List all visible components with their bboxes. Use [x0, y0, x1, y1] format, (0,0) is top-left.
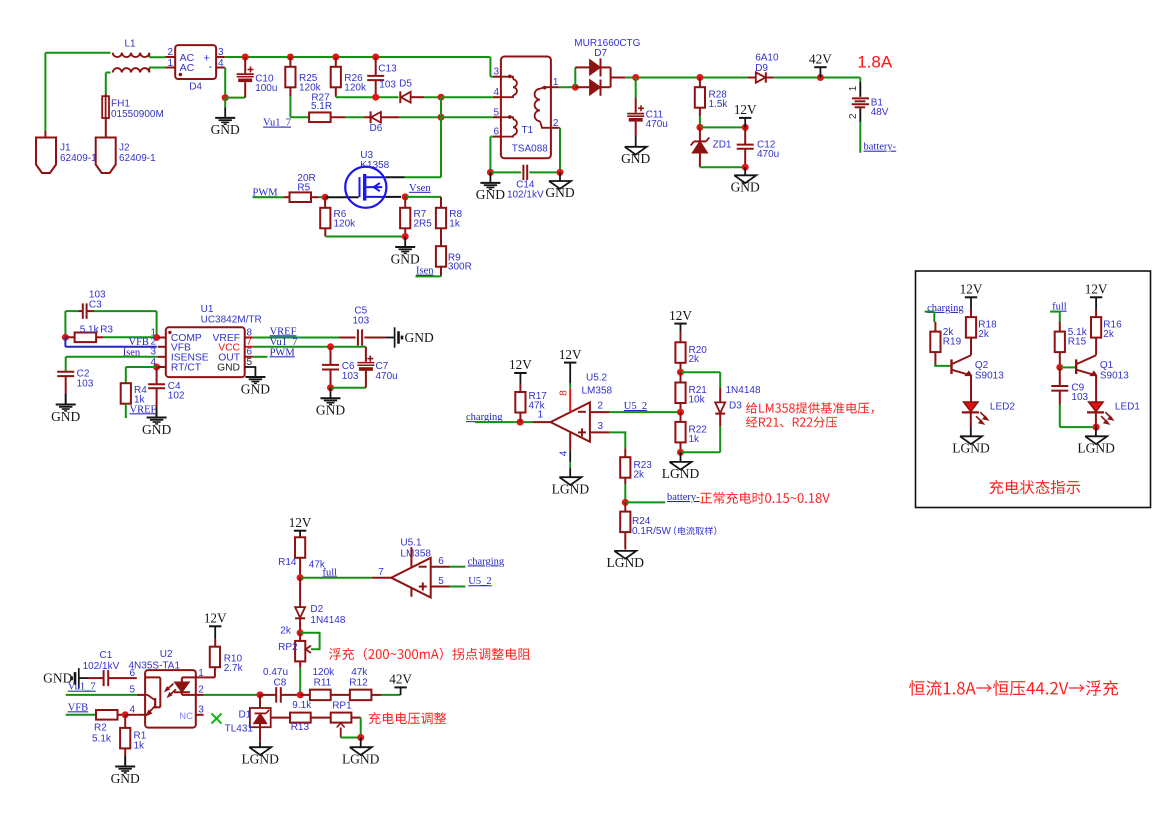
svg-text:VFB: VFB	[68, 702, 88, 713]
svg-text:LGND: LGND	[607, 555, 645, 570]
svg-text:U5.2: U5.2	[586, 373, 608, 384]
svg-text:Vu1_7: Vu1_7	[263, 118, 291, 129]
wire L1 lower to D4 pin1	[149, 67, 165, 69]
svg-text:TL431: TL431	[225, 723, 254, 734]
ground GND under T1 pin6	[489, 172, 491, 183]
svg-text:UC3842M/TR: UC3842M/TR	[201, 315, 262, 326]
wire ISENSE	[66, 356, 158, 358]
wire T1 pin4	[441, 96, 493, 98]
svg-text:5.1k: 5.1k	[92, 734, 112, 745]
svg-text:9.1k: 9.1k	[292, 700, 312, 711]
wire D1 ref to R13	[271, 717, 290, 719]
svg-text:C13: C13	[378, 64, 397, 75]
junction	[1093, 424, 1100, 431]
junction	[438, 114, 445, 121]
junction	[327, 343, 334, 350]
svg-text:103: 103	[342, 371, 359, 382]
resistor R16	[1095, 309, 1097, 317]
svg-text:5: 5	[438, 576, 444, 587]
svg-text:T1: T1	[522, 125, 534, 136]
wire R6 to R7 ground rail	[325, 236, 405, 238]
junction Vsen	[402, 193, 409, 200]
ground GND under C4	[156, 408, 158, 418]
svg-text:6: 6	[129, 668, 135, 679]
resistor R3	[65, 336, 74, 338]
wire to D3 top	[681, 371, 721, 373]
svg-text:2: 2	[167, 47, 173, 58]
optocoupler U2	[137, 694, 145, 696]
svg-text:3: 3	[493, 67, 499, 78]
junction	[677, 409, 684, 416]
wire output rail	[625, 77, 748, 79]
svg-text:62409-1: 62409-1	[60, 153, 97, 164]
wire full to op-amp	[300, 577, 372, 579]
svg-text:U2: U2	[160, 649, 173, 660]
wire rail to T1 pin3	[489, 57, 491, 77]
resistor R13	[290, 713, 311, 723]
resistor R5	[290, 192, 312, 202]
svg-text:R2: R2	[94, 723, 107, 734]
wire R28 to C12	[700, 126, 745, 128]
wire drain	[386, 176, 405, 178]
svg-text:LGND: LGND	[952, 441, 990, 456]
wire T1 pin2 down	[559, 127, 560, 129]
svg-text:RT/CT: RT/CT	[171, 363, 202, 374]
power flag 12V above R18	[965, 296, 977, 298]
svg-text:2: 2	[598, 401, 604, 412]
annotation red text normal charging	[700, 492, 830, 504]
svg-text:D5: D5	[399, 79, 412, 90]
svg-text:120k: 120k	[334, 219, 357, 230]
wire gate	[325, 196, 358, 198]
svg-text:U5_2: U5_2	[468, 576, 491, 587]
svg-text:2k: 2k	[978, 329, 990, 340]
svg-text:1: 1	[167, 58, 173, 69]
svg-text:L1: L1	[124, 39, 136, 50]
wire L1 to D4 pin2	[149, 56, 165, 58]
annotation red text bottom right	[909, 680, 1118, 696]
svg-text:GND: GND	[51, 409, 80, 424]
resistor R1	[124, 715, 126, 728]
svg-text:GND: GND	[391, 251, 420, 266]
ground GND pin5	[245, 367, 256, 377]
ground GND right of C5	[385, 337, 394, 339]
svg-text:5.1k: 5.1k	[80, 324, 100, 335]
svg-text:12V: 12V	[289, 515, 312, 530]
power flag 42V	[400, 687, 402, 695]
svg-text:S9013: S9013	[975, 371, 1004, 382]
svg-text:D9: D9	[755, 63, 768, 74]
resistor R22	[680, 412, 682, 422]
wire Vsen to R8	[405, 196, 441, 198]
svg-text:R11: R11	[314, 677, 332, 688]
junction	[62, 334, 69, 341]
junction	[402, 233, 409, 240]
svg-text:4: 4	[150, 357, 156, 368]
wire Q2 emitter to LED2	[970, 375, 972, 401]
svg-text:C1: C1	[100, 650, 113, 661]
svg-text:Isen: Isen	[416, 266, 434, 277]
svg-text:102: 102	[168, 391, 185, 402]
svg-text:D7: D7	[594, 48, 607, 59]
resistor R26	[332, 54, 339, 61]
diode D2	[299, 578, 301, 607]
svg-text:4: 4	[493, 87, 499, 98]
power flag 42V	[817, 74, 824, 81]
transformer T1	[493, 76, 501, 78]
transistor Q1	[1075, 359, 1077, 374]
capacitor C2	[57, 371, 74, 373]
svg-text:GND: GND	[731, 180, 760, 195]
svg-text:12V: 12V	[669, 308, 692, 323]
op-amp U5.1	[391, 558, 431, 598]
resistor R23	[624, 448, 626, 457]
diode D5	[399, 91, 401, 103]
wire full to R15	[1050, 311, 1060, 313]
annotation red text line1	[746, 402, 874, 414]
pin 8 power	[569, 363, 571, 384]
LED LED2	[964, 402, 978, 411]
LED LED1	[1089, 402, 1103, 411]
ground GND under C11	[635, 136, 637, 147]
potentiometer RP1	[331, 713, 352, 723]
svg-text:RP1: RP1	[332, 701, 352, 712]
resistor R19	[934, 322, 936, 332]
svg-text:LGND: LGND	[552, 481, 590, 496]
capacitor C9	[1059, 367, 1061, 385]
wire RP1 right to ground	[351, 717, 360, 719]
svg-text:RP2: RP2	[278, 642, 298, 653]
svg-text:470u: 470u	[757, 149, 779, 160]
resistor R27	[309, 112, 331, 122]
svg-text:120k: 120k	[313, 667, 336, 678]
svg-text:2: 2	[848, 113, 859, 119]
svg-text:4: 4	[558, 450, 569, 456]
wire RP1 wiper to ground	[341, 737, 361, 739]
wire VFB blue	[64, 337, 66, 347]
svg-text:2k: 2k	[689, 354, 701, 365]
svg-text:470u: 470u	[376, 371, 398, 382]
capacitor C5	[357, 329, 359, 345]
wire R8 to R9	[440, 228, 442, 246]
capacitor C6	[330, 347, 332, 365]
junction	[572, 84, 579, 91]
junction	[677, 369, 684, 376]
wire R15 to Q1 base	[1060, 366, 1075, 368]
svg-text:12V: 12V	[509, 357, 532, 372]
svg-text:48V: 48V	[871, 107, 889, 118]
wire VCC pin7	[253, 346, 366, 348]
svg-text:42V: 42V	[809, 51, 832, 66]
svg-text:12V: 12V	[734, 102, 757, 117]
label R24 CJK	[674, 526, 716, 535]
svg-text:LGND: LGND	[342, 751, 380, 766]
svg-text:U5.1: U5.1	[400, 537, 422, 548]
svg-text:12V: 12V	[960, 282, 983, 297]
wire R25 to R27	[289, 96, 291, 117]
diode D9	[748, 77, 756, 79]
svg-text:K1358: K1358	[360, 160, 389, 171]
pin 4 power	[569, 432, 571, 450]
capacitor C8	[260, 694, 276, 696]
diode D7 MUR1660CTG	[574, 67, 576, 87]
svg-text:103: 103	[352, 315, 369, 326]
svg-text:R19: R19	[943, 337, 962, 348]
capacitor C7	[365, 347, 367, 362]
svg-text:GND: GND	[142, 422, 171, 437]
svg-text:Vu1_7: Vu1_7	[68, 682, 96, 693]
wire PWM to R5	[253, 196, 284, 198]
svg-text:103: 103	[77, 378, 94, 389]
capacitor C10	[242, 54, 249, 61]
svg-text:470u: 470u	[646, 119, 668, 130]
svg-text:5.1R: 5.1R	[311, 101, 332, 112]
svg-text:LGND: LGND	[241, 751, 279, 766]
wire LED1 to ground	[1095, 412, 1097, 427]
diode D3	[719, 387, 721, 402]
svg-text:charging: charging	[468, 556, 505, 567]
svg-text:0.47u: 0.47u	[263, 667, 288, 678]
capacitor C12	[744, 127, 746, 144]
svg-text:1.5k: 1.5k	[709, 99, 729, 110]
wire C14 right	[529, 171, 560, 173]
wire pin3	[590, 431, 610, 433]
wire source to Vsen	[386, 196, 401, 198]
svg-text:2.7k: 2.7k	[224, 663, 244, 674]
svg-text:1N4148: 1N4148	[310, 615, 345, 626]
ground LGND under D1	[259, 742, 261, 747]
svg-text:3: 3	[598, 421, 604, 432]
ground LGND under LED2	[960, 436, 982, 444]
svg-text:2: 2	[198, 685, 204, 696]
junction	[622, 499, 629, 506]
junction	[327, 384, 334, 391]
svg-text:01550900M: 01550900M	[111, 109, 164, 120]
junction	[122, 711, 129, 718]
resistor R2	[96, 710, 118, 720]
svg-text:full: full	[323, 567, 338, 578]
ground LGND under U5.2	[559, 477, 581, 485]
svg-text:LED2: LED2	[990, 401, 1015, 412]
svg-text:8: 8	[558, 390, 569, 396]
svg-text:D1: D1	[239, 710, 252, 721]
svg-text:U5_2: U5_2	[624, 401, 647, 412]
wire T1 pin5	[441, 116, 493, 118]
ground GND under R1	[124, 757, 126, 767]
svg-text:D2: D2	[310, 604, 323, 615]
svg-text:U1: U1	[201, 304, 214, 315]
capacitor C4	[156, 367, 158, 384]
svg-text:-: -	[209, 61, 213, 73]
transistor Q2	[950, 359, 952, 374]
svg-text:R3: R3	[100, 324, 113, 335]
resistor R21	[680, 372, 682, 382]
ground GND under C12	[744, 167, 746, 175]
svg-text:2k: 2k	[280, 625, 292, 636]
mosfet U3	[345, 167, 386, 208]
svg-text:R15: R15	[1068, 337, 1087, 348]
resistor R18	[970, 309, 972, 317]
svg-text:R14: R14	[278, 557, 297, 568]
capacitor C14	[522, 165, 524, 180]
resistor R17	[519, 384, 521, 392]
svg-text:1k: 1k	[134, 740, 146, 751]
svg-text:3: 3	[198, 705, 204, 716]
svg-text:MUR1660CTG: MUR1660CTG	[574, 38, 640, 49]
title charging status CJK	[989, 480, 1080, 494]
svg-text:10k: 10k	[689, 394, 706, 405]
wire C14 left	[490, 171, 521, 173]
svg-text:VREF: VREF	[270, 326, 297, 337]
svg-text:D4: D4	[189, 82, 202, 93]
svg-text:GND: GND	[111, 771, 140, 786]
svg-text:GND: GND	[405, 330, 434, 345]
wire R26 to rail	[335, 95, 337, 98]
wire C6 to C7 bottom	[331, 387, 366, 389]
resistor R4	[121, 383, 131, 404]
svg-text:1: 1	[537, 410, 543, 421]
wire OUT pin6	[253, 356, 268, 358]
svg-text:12V: 12V	[1085, 282, 1108, 297]
svg-text:12V: 12V	[559, 347, 582, 362]
svg-text:4N35S-TA1: 4N35S-TA1	[129, 660, 181, 671]
svg-text:GND: GND	[476, 187, 505, 202]
svg-text:1k: 1k	[449, 219, 461, 230]
op-amp U5.2	[533, 421, 551, 423]
wire D4 pin4 to GND	[224, 67, 226, 69]
resistor R14	[295, 537, 305, 558]
svg-text:GND: GND	[316, 403, 345, 418]
resistor R15	[1059, 322, 1061, 332]
svg-text:GND: GND	[241, 381, 270, 396]
svg-text:Vsen: Vsen	[409, 183, 431, 194]
IC U1 UC3842M/TR	[158, 337, 166, 339]
svg-text:120k: 120k	[344, 82, 367, 93]
junction	[1056, 364, 1063, 371]
TL431 D1	[259, 695, 261, 708]
power flag 12V above R10	[209, 625, 221, 627]
capacitor C13	[372, 54, 379, 61]
resistor R6	[324, 197, 326, 208]
svg-text:103: 103	[1071, 392, 1088, 403]
wire VFB to R2	[66, 714, 96, 716]
potentiometer RP2	[299, 633, 301, 641]
wire charging to op-amp	[475, 421, 533, 423]
svg-text:1k: 1k	[689, 434, 701, 445]
wire RT/CT to R4	[126, 366, 157, 368]
battery B1	[859, 78, 861, 82]
svg-text:AC: AC	[180, 62, 195, 74]
svg-text:LM358: LM358	[400, 549, 431, 560]
svg-text:NC: NC	[179, 711, 193, 722]
junction	[297, 574, 304, 581]
wire pin5 U5_2	[431, 586, 450, 588]
junction	[742, 164, 749, 171]
resistor R9	[436, 246, 446, 267]
ground GND under R7	[404, 237, 406, 248]
wire C3 left down	[64, 311, 66, 337]
svg-text:GND: GND	[217, 363, 240, 374]
wire drain vertical	[440, 97, 442, 177]
annotation red text line2	[746, 416, 837, 427]
resistor R25	[287, 54, 294, 61]
power flag 12V	[742, 124, 749, 131]
power flag 12V above R20	[674, 323, 686, 325]
wire to ground	[224, 98, 226, 108]
ground GND under D4	[224, 107, 226, 118]
wire C3 right down to pin1	[156, 311, 158, 337]
wire R19 to Q2 base	[934, 365, 935, 367]
svg-text:R13: R13	[291, 722, 310, 733]
svg-text:62409-1: 62409-1	[119, 153, 156, 164]
power flag 12V above R16	[1090, 296, 1102, 298]
wire R11 to R12	[331, 694, 350, 696]
svg-text:LED1: LED1	[1115, 401, 1140, 412]
diode D6	[370, 111, 372, 123]
junction	[222, 94, 229, 101]
svg-text:102/1kV: 102/1kV	[83, 661, 120, 672]
ground LGND under RP1	[360, 738, 362, 748]
svg-text:PWM: PWM	[270, 347, 296, 358]
bridge rectifier D4	[165, 56, 175, 58]
annotation red text charge voltage adjust	[369, 712, 446, 724]
svg-text:0.1R/5W: 0.1R/5W	[632, 526, 671, 537]
junction	[297, 629, 304, 636]
resistor R11	[300, 694, 310, 696]
wire T1 pin6 to ground	[490, 136, 493, 138]
ground LGND under LED1	[1085, 436, 1107, 444]
junction	[438, 94, 445, 101]
ground LGND under R22	[680, 452, 682, 462]
svg-text:1: 1	[553, 77, 559, 88]
svg-text:7: 7	[378, 567, 384, 578]
svg-text:300R: 300R	[448, 262, 472, 273]
svg-text:LGND: LGND	[662, 466, 700, 481]
wire pin2 U5_2 net	[590, 411, 610, 413]
svg-text:R5: R5	[297, 182, 310, 193]
wire battery-	[859, 122, 861, 153]
no connect cross pin3	[212, 714, 222, 724]
resistor R20	[680, 331, 682, 342]
junction	[297, 691, 304, 698]
svg-text:1.8A: 1.8A	[857, 52, 893, 71]
zener diode ZD1	[699, 127, 701, 141]
svg-text:TSA088: TSA088	[512, 144, 549, 155]
svg-text:12V: 12V	[204, 611, 227, 626]
connector J1	[36, 138, 56, 174]
svg-text:GND: GND	[211, 122, 240, 137]
resistor R28	[696, 74, 703, 81]
svg-text:Q2: Q2	[975, 360, 989, 371]
svg-text:47k: 47k	[351, 667, 368, 678]
resistor R8	[436, 208, 446, 229]
connector J2	[96, 138, 116, 174]
svg-text:battery-: battery-	[864, 142, 897, 153]
ground GND under C2	[65, 395, 67, 405]
svg-text:120k: 120k	[299, 82, 322, 93]
junction	[557, 169, 564, 176]
wire T1 pin1 to D7	[559, 86, 575, 88]
wire R13 to RP1	[311, 717, 331, 719]
wire charging to R19	[925, 311, 935, 313]
svg-text:1N4148: 1N4148	[726, 385, 761, 396]
junction	[322, 194, 329, 201]
junction	[487, 169, 494, 176]
power flag 12V above R14	[294, 530, 306, 532]
svg-text:1: 1	[848, 85, 859, 91]
svg-text:battery-: battery-	[667, 492, 700, 503]
fuse FH1	[102, 96, 109, 118]
